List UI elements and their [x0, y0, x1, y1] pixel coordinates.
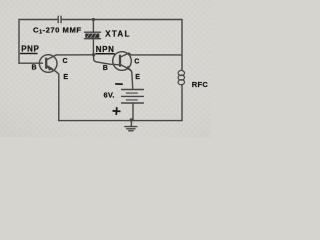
svg-text:PNP: PNP [21, 45, 39, 54]
wire crystal node to NPN base [94, 55, 120, 65]
paper texture [0, 0, 211, 137]
ground [125, 121, 137, 131]
wire NPN collector [131, 54, 182, 56]
svg-text:B: B [32, 64, 37, 71]
wire top (crystal node to right corner) [93, 19, 182, 21]
svg-text:C: C [134, 59, 139, 66]
svg-text:E: E [135, 74, 140, 81]
svg-text:NPN: NPN [96, 45, 115, 54]
label plus [112, 107, 121, 115]
transistor Q1 PNP [39, 55, 57, 73]
battery B1 6V [122, 90, 144, 104]
svg-text:C: C [63, 58, 68, 65]
wire left side [18, 20, 20, 64]
svg-text:E: E [63, 74, 68, 81]
wire coupling PNP collector to crystal node [56, 54, 93, 56]
wire top (C1 to crystal node) [62, 19, 93, 21]
node: ground junction [130, 118, 133, 121]
node: crystal bottom junction [92, 53, 95, 56]
transistor Q2 NPN [113, 52, 132, 71]
wire bottom [59, 120, 182, 122]
wire right side (top to RFC) [181, 20, 183, 71]
wire right side (RFC to bottom corner) [181, 85, 183, 121]
capacitor C1 [58, 16, 61, 23]
node: crystal top junction [92, 18, 95, 21]
svg-text:RFC: RFC [192, 80, 209, 89]
wire PNP base [19, 62, 43, 64]
wire PNP emitter drop [56, 71, 59, 120]
crystal Y1 [85, 20, 101, 55]
underline PNP [20, 53, 38, 54]
svg-text:B: B [103, 65, 108, 72]
svg-text:6V.: 6V. [104, 91, 115, 100]
underline NPN [95, 53, 115, 55]
svg-text:XTAL: XTAL [105, 30, 131, 39]
inductor RFC [178, 70, 184, 84]
label minus [115, 83, 123, 85]
wire battery to bottom [132, 103, 134, 121]
wire NPN emitter to battery [130, 70, 133, 90]
wire top (left segment to C1) [19, 19, 58, 21]
paper background [0, 0, 211, 137]
